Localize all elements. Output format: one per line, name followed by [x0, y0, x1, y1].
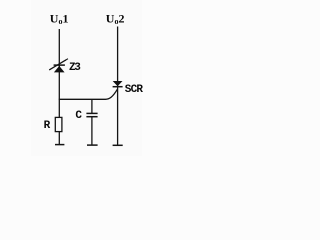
svg-text:Z3: Z3 — [69, 62, 81, 74]
svg-text:R: R — [44, 120, 51, 132]
svg-text:SCR: SCR — [125, 84, 144, 96]
svg-text:C: C — [75, 110, 82, 122]
